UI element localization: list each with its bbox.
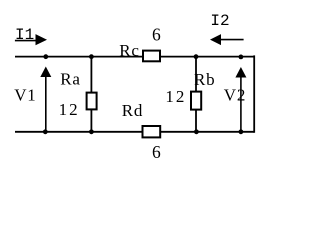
node dot bottom-right port bbox=[239, 129, 244, 134]
node dot top Ra junction bbox=[89, 54, 94, 59]
svg-text:Rb: Rb bbox=[194, 70, 215, 89]
resistor Rc body bbox=[143, 51, 160, 62]
voltage arrow V1 head bbox=[40, 67, 51, 78]
wire bottom horizontal (common rail) bbox=[15, 131, 254, 133]
voltage arrow V2 head bbox=[235, 67, 246, 78]
svg-text:I1: I1 bbox=[15, 26, 34, 44]
current arrow I1 shaft bbox=[15, 40, 37, 42]
node dot bottom Ra junction bbox=[89, 129, 94, 134]
wire vertical Rb branch bbox=[195, 56, 197, 132]
svg-text:Rd: Rd bbox=[122, 101, 143, 120]
node dot top-left port bbox=[43, 54, 48, 59]
resistor Ra body bbox=[87, 93, 97, 110]
current arrow I1 head bbox=[36, 34, 48, 45]
voltage arrow V2 shaft bbox=[240, 76, 242, 132]
svg-text:V1: V1 bbox=[14, 85, 36, 104]
svg-text:12: 12 bbox=[165, 87, 186, 106]
wire right vertical side bbox=[253, 55, 255, 132]
wire vertical Ra branch bbox=[90, 56, 92, 132]
svg-text:6: 6 bbox=[152, 142, 161, 162]
current arrow I2 shaft bbox=[221, 39, 244, 41]
svg-text:6: 6 bbox=[152, 24, 161, 44]
resistor Rd body bbox=[143, 126, 161, 137]
svg-text:12: 12 bbox=[59, 100, 80, 119]
svg-text:I2: I2 bbox=[210, 12, 229, 30]
svg-text:V2: V2 bbox=[224, 86, 246, 105]
svg-text:Rc: Rc bbox=[119, 41, 139, 60]
node dot top-right port bbox=[239, 55, 244, 60]
current arrow I2 head bbox=[210, 34, 221, 45]
svg-text:Ra: Ra bbox=[60, 69, 80, 88]
wire top horizontal (node 1 to node 2) bbox=[15, 56, 254, 58]
voltage arrow V1 shaft bbox=[45, 76, 47, 132]
node dot top Rb junction bbox=[194, 54, 199, 59]
resistor Rb body bbox=[191, 92, 201, 110]
node dot bottom-left port bbox=[43, 129, 48, 134]
node dot bottom Rb junction bbox=[194, 129, 199, 134]
